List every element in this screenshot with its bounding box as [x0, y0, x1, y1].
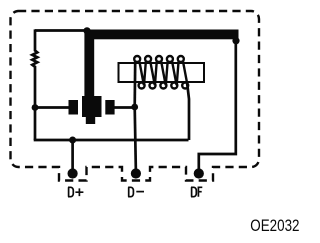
svg-text:OE2032: OE2032	[250, 217, 299, 236]
